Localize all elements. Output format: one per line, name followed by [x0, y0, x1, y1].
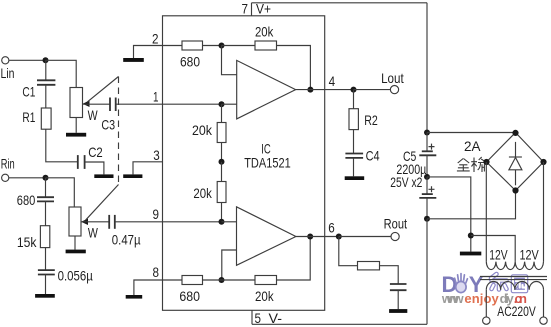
wire Rin to node B [9, 177, 46, 179]
svg-text:Lin: Lin [1, 65, 15, 81]
pin 9 label [153, 206, 160, 222]
transformer core [480, 277, 547, 280]
dashed gang link of dual pot [118, 77, 120, 185]
transformer T1 secondary windings 12V 12V [486, 246, 543, 269]
junction U1b output node [307, 234, 313, 240]
svg-text:12V: 12V [489, 246, 508, 262]
svg-text:5: 5 [255, 310, 262, 326]
wire 680 to node C [203, 45, 222, 47]
svg-text:C3: C3 [101, 116, 115, 132]
svg-text:W: W [88, 224, 99, 240]
capacitor 680 (right channel) [17, 178, 54, 208]
wire node B to pot RP2 top [46, 178, 75, 207]
wire primary right lead [543, 290, 545, 317]
junction node A (Lin input) [43, 57, 49, 63]
svg-text:1: 1 [153, 88, 159, 104]
svg-text:680: 680 [17, 192, 36, 208]
capacitor C3 [83, 98, 116, 133]
svg-text:7: 7 [242, 1, 249, 17]
diode inside bridge [509, 142, 522, 185]
pin 2 label [152, 30, 159, 46]
wire node CT to transformer center tap [471, 236, 515, 262]
potentiometer RP1 (left volume) [70, 77, 119, 124]
ground for Zobel [389, 290, 407, 313]
junction bridge left vertex [483, 159, 489, 165]
resistor 680 (pin 8, lower) [163, 276, 203, 305]
svg-text:15k: 15k [17, 234, 37, 250]
svg-text:Rin: Rin [1, 155, 15, 171]
svg-text:2: 2 [152, 30, 159, 46]
junction node D [219, 101, 225, 107]
wire node A to pot RP1 top [46, 60, 77, 87]
wire 20k to op-amp U1b output [277, 237, 311, 281]
resistor 20k (between pin1 and pin3 nodes) [192, 104, 226, 142]
wire R1 bottom to capacitor C2 [46, 129, 78, 162]
watermark leyuan characters [491, 274, 526, 291]
IC U1 TDA1521 outline box [163, 16, 325, 311]
op-amp U1a [237, 60, 296, 119]
wire 20k to node E (pin3) [221, 143, 223, 162]
terminal AC220V left [483, 317, 490, 324]
svg-text:C4: C4 [366, 147, 380, 163]
pin 2 wire and ground [134, 46, 163, 59]
wire V- node down to V- rail [426, 219, 428, 324]
junction node V+ (C5 top) [424, 130, 430, 136]
wire node F to U1b non-inverting input [222, 221, 237, 223]
wire node D to U1a non-inverting input [222, 103, 237, 105]
terminal Rout [384, 215, 408, 240]
terminal Rin [1, 155, 15, 181]
svg-text:6: 6 [328, 219, 335, 235]
wire primary left lead [485, 290, 487, 317]
svg-text:C2: C2 [88, 144, 103, 160]
resistor R2 [349, 90, 378, 130]
ground for pin 8 [126, 295, 143, 299]
terminal Lin [1, 57, 15, 81]
svg-text:0.056µ: 0.056µ [58, 268, 93, 284]
capacitor C5 lower electrolytic [419, 177, 436, 198]
svg-text:680: 680 [179, 288, 200, 304]
capacitor C5 upper electrolytic [390, 133, 436, 191]
junction U1a output node [307, 87, 313, 93]
wire node H to Lout [354, 89, 391, 91]
capacitor C1 [22, 60, 55, 99]
terminal Lout [381, 70, 404, 94]
wire IC pin 8 to ground [134, 280, 163, 295]
wire 20k to op-amp U1a output [277, 46, 311, 90]
junction node J (Zobel tap) [336, 234, 342, 240]
ground for pin 2 [123, 58, 144, 62]
terminal AC220V right [540, 317, 547, 324]
wire pin 1 row to node D [163, 103, 222, 105]
op-amp U1b [237, 207, 296, 265]
svg-text:4: 4 [329, 73, 336, 89]
pin 4 label [329, 73, 336, 89]
svg-text:9: 9 [153, 206, 160, 222]
AC220V label [497, 303, 536, 319]
junction node B (Rin input) [43, 175, 49, 181]
wire 20k to node F (pin9) [221, 203, 223, 222]
ground for C4 [345, 158, 365, 180]
svg-text:V-: V- [269, 310, 283, 326]
svg-text:R1: R1 [22, 109, 35, 125]
svg-text:680: 680 [180, 53, 200, 69]
wire C2 to its ground [85, 162, 104, 174]
capacitor C2 [78, 144, 103, 169]
junction bridge bottom vertex [512, 187, 518, 193]
wire C5 lower to V- node [426, 198, 428, 219]
wire pin 9 row to node F [163, 221, 222, 223]
capacitor 0.056u [38, 248, 93, 284]
resistor 15k [17, 201, 50, 250]
junction node MID (supply ground) [424, 174, 430, 180]
svg-text:20k: 20k [255, 23, 274, 39]
capacitor C4 [345, 130, 379, 164]
junction node H (R2 top) [351, 87, 357, 93]
ground for pin 3 [123, 174, 142, 178]
ground for supply [460, 252, 481, 256]
pin 8 label [153, 264, 160, 280]
ground for C2 [94, 174, 113, 178]
wire Lin to node A [9, 59, 45, 61]
svg-text:TDA1521: TDA1521 [244, 154, 291, 170]
junction node F [219, 219, 225, 225]
resistor 20k (between pin3 and pin9 nodes) [193, 162, 226, 203]
wire V+ rail from pin7 to supply [426, 3, 428, 133]
junction bridge top vertex [512, 130, 518, 136]
svg-text:Lout: Lout [381, 70, 404, 86]
potentiometer RP2 (right volume) [69, 185, 119, 241]
wire V- node to bridge minus [427, 191, 516, 219]
svg-text:2A: 2A [464, 138, 481, 154]
junction node CT (center-tap tie) [468, 233, 474, 239]
wire C5 upper to mid node [426, 155, 428, 177]
wire V+ node to bridge plus [427, 132, 516, 134]
svg-text:8: 8 [153, 264, 160, 280]
wire node G to U1b inverting input [222, 250, 237, 280]
svg-text:20k: 20k [192, 122, 213, 138]
resistor R1 [22, 85, 51, 129]
bridge label quanqiao (full bridge) [457, 157, 485, 172]
bridge rectifier D1 2A diamond [464, 133, 544, 191]
pin 3 label [153, 147, 160, 163]
svg-text:V+: V+ [256, 1, 271, 17]
ground for 0.056u [35, 275, 55, 298]
IC label [244, 140, 291, 170]
pin 1 label [153, 88, 159, 104]
watermark DIY logo [442, 272, 484, 297]
wire U1a output to pin 4 and Lout [296, 89, 354, 91]
node V+ pin 7 notch [242, 1, 428, 17]
svg-text:W: W [88, 107, 99, 123]
resistor 680 (pin 2, upper) [163, 41, 203, 69]
svg-text:C1: C1 [22, 84, 35, 100]
capacitor 0.47u [81, 215, 141, 247]
svg-text:20k: 20k [193, 185, 212, 201]
svg-text:Rout: Rout [384, 215, 408, 231]
wire U1b output to pin 6 and Rout [296, 236, 339, 238]
ground for RP2 [66, 236, 86, 253]
node V- pin 5 notch [252, 310, 427, 326]
junction node C [219, 43, 225, 49]
wire IC pin 3 to ground [133, 162, 163, 175]
wire bridge right vertex to secondary right [543, 162, 545, 262]
wire 0.47u to IC pin 9 [115, 221, 163, 223]
wire C3 to IC pin 1 [116, 103, 163, 105]
svg-text:AC220V: AC220V [497, 303, 536, 319]
wire node J to Rout [339, 236, 391, 238]
svg-text:www.: www. [441, 291, 465, 306]
svg-text:12V: 12V [520, 246, 540, 262]
wire node C to U1a inverting input [222, 46, 237, 75]
Zobel capacitor [380, 266, 407, 291]
junction node G [219, 277, 225, 283]
resistor 20k (upper feedback) [222, 23, 277, 50]
junction node E [219, 159, 225, 165]
svg-text:0.47µ: 0.47µ [112, 231, 141, 247]
ground for RP1 [66, 118, 86, 137]
resistor 20k (lower feedback) [203, 276, 277, 305]
svg-text:25V x2: 25V x2 [390, 174, 422, 190]
svg-text:enjoy: enjoy [464, 291, 499, 306]
junction bridge right vertex [540, 159, 546, 165]
wire mid node to ground column [427, 177, 471, 252]
watermark url [441, 291, 527, 306]
pin 6 label [328, 219, 335, 235]
svg-text:20k: 20k [255, 288, 274, 304]
wire bridge left vertex to secondary left [485, 162, 487, 262]
Zobel resistor [339, 237, 380, 270]
svg-text:3: 3 [153, 147, 160, 163]
transformer primary winding [486, 282, 543, 290]
junction node V- (C5 bottom) [424, 216, 430, 222]
svg-text:R2: R2 [364, 112, 378, 128]
